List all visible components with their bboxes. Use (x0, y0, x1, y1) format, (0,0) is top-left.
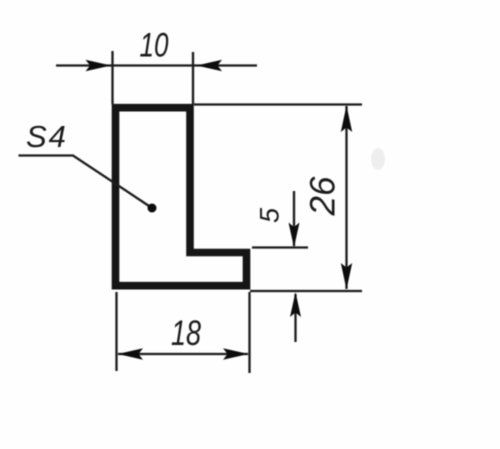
svg-text:18: 18 (171, 314, 201, 353)
L-profile outline (116, 108, 247, 286)
arrowhead pointing left at left ext line (118, 348, 144, 359)
arrowhead down at bottom (341, 263, 352, 290)
leader line (19, 156, 153, 209)
step extension line (5 dim) (252, 246, 308, 248)
faint scan smudge (371, 148, 385, 170)
dimension line 18 (118, 353, 248, 355)
extension line right (10 dim) (192, 52, 194, 104)
extension line left (18 dim) (115, 292, 117, 371)
extension line right (18 dim) (248, 292, 250, 373)
svg-text:10: 10 (140, 27, 169, 65)
arrowhead pointing right at right ext line (223, 348, 249, 359)
extension line left (10 dim) (111, 51, 113, 104)
arrowhead pointing right at left ext line (86, 60, 112, 71)
arrowhead pointing left at right ext line (197, 60, 223, 71)
5 dim lower line with up arrow (294, 294, 296, 342)
svg-text:5: 5 (255, 207, 285, 223)
svg-text:26: 26 (304, 176, 343, 216)
svg-text:S4: S4 (26, 119, 68, 154)
dimension line 26 vertical (345, 106, 347, 289)
bottom extension line (26 dim) (250, 290, 362, 292)
top extension line (26 dim) (194, 103, 362, 105)
leader dot (148, 204, 157, 213)
dimension line 10 (56, 64, 257, 66)
5 dim upper line with down arrow (293, 191, 295, 246)
arrowhead up at top (341, 106, 352, 133)
